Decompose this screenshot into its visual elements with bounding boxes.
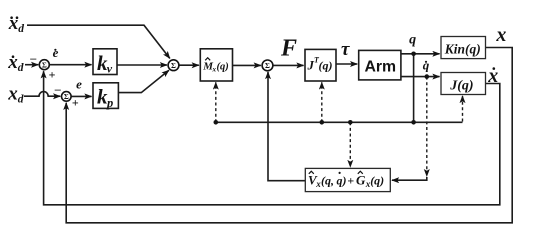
svg-text:q): q): [337, 174, 347, 188]
svg-text:Arm: Arm: [365, 58, 397, 75]
svg-text:τ: τ: [341, 39, 350, 60]
svg-text:+: +: [347, 173, 354, 187]
svg-text:(q): (q): [217, 62, 229, 73]
svg-text:–: –: [29, 51, 37, 65]
svg-text:J(q): J(q): [449, 79, 473, 94]
svg-text:d: d: [18, 94, 24, 106]
svg-text:+: +: [72, 95, 79, 109]
svg-text:v: v: [107, 62, 113, 76]
svg-text:+: +: [49, 67, 56, 81]
svg-text:x: x: [8, 13, 19, 34]
svg-text:q: q: [423, 58, 430, 73]
svg-text:x: x: [7, 84, 18, 105]
svg-text:(q): (q): [370, 174, 384, 188]
svg-text:Σ: Σ: [265, 61, 270, 70]
svg-text:(q,: (q,: [321, 174, 334, 188]
svg-text:x: x: [7, 52, 18, 73]
svg-text:F: F: [280, 35, 297, 61]
svg-text:–: –: [54, 82, 62, 96]
svg-text:p: p: [106, 96, 113, 110]
svg-text:Σ: Σ: [64, 92, 69, 101]
svg-text:Σ: Σ: [42, 61, 47, 70]
svg-text:x: x: [495, 24, 506, 46]
svg-text:Σ: Σ: [171, 61, 176, 70]
svg-text:(q): (q): [319, 58, 333, 72]
svg-text:e: e: [53, 45, 59, 60]
svg-text:G: G: [356, 173, 366, 188]
svg-text:d: d: [18, 62, 24, 74]
svg-text:e: e: [76, 76, 82, 91]
svg-text:q: q: [409, 33, 416, 48]
svg-text:Kin(q): Kin(q): [444, 42, 481, 57]
svg-text:d: d: [18, 23, 24, 35]
